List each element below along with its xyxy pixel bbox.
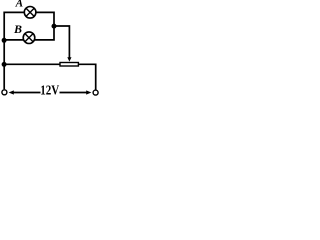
svg-text:12V: 12V: [40, 83, 59, 98]
svg-text:A: A: [15, 0, 24, 10]
svg-text:B: B: [13, 22, 22, 36]
